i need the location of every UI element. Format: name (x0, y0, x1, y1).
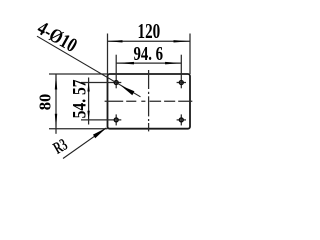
hole TL crosshair (81, 55, 121, 89)
svg-text:94. 6: 94. 6 (133, 42, 163, 65)
hole BL crosshair (81, 114, 121, 125)
svg-text:120: 120 (138, 19, 161, 42)
plate outline (108, 74, 191, 129)
dim 94.6 arrow left (116, 62, 134, 65)
dim 80 line (55, 74, 57, 134)
svg-text:54. 57: 54. 57 (69, 79, 90, 118)
dim 80 extension lines (49, 74, 108, 129)
dim 54.57 line (88, 78, 90, 125)
dim 94.6 line (116, 62, 181, 64)
dim 80 arrow top (55, 74, 57, 90)
dim 120 line (108, 40, 191, 42)
hole TL (114, 81, 118, 85)
vertical centerline (148, 70, 150, 131)
dim 120 arrow left (108, 40, 123, 42)
hole BR crosshair (177, 114, 186, 125)
dim 120 extension lines (108, 34, 191, 75)
hole BL (114, 118, 118, 122)
svg-text:80: 80 (35, 94, 54, 111)
hole TR (179, 81, 183, 85)
hole BR (179, 118, 183, 122)
leader R3 line (63, 128, 106, 159)
horizontal centerline (105, 100, 193, 102)
dim 54.57 arrow bottom (87, 111, 89, 120)
hole TR crosshair (177, 55, 186, 89)
dim 120 arrow right (174, 40, 191, 42)
leader 4-d10 arrow (121, 86, 135, 96)
leader 4-d10 line (37, 36, 141, 97)
dim 80 arrow bottom (55, 114, 57, 129)
dim 94.6 arrow right (165, 62, 181, 65)
leader R3 arrow (93, 128, 107, 139)
dim 54.57 arrow top (87, 82, 89, 91)
